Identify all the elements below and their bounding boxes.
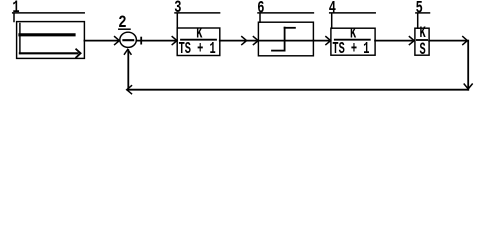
block 4 numerator K — [350, 25, 357, 42]
relay axis line through block — [258, 40, 313, 42]
block 3 numerator K — [196, 25, 203, 42]
tick at wire start after summing junction — [140, 38, 142, 44]
label tick for block 3 — [176, 14, 178, 29]
arrowhead into block 6 — [253, 37, 258, 45]
block 1 icon: y-axis — [19, 24, 21, 54]
svg-text:5: 5 — [416, 0, 423, 18]
block 4 fraction bar — [335, 39, 370, 41]
svg-text:TS + 1: TS + 1 — [332, 41, 369, 59]
block 1 icon: constant level thick bar — [20, 33, 74, 36]
label 6 underline — [258, 12, 313, 14]
relay lower output level — [272, 50, 285, 52]
label 1 underline — [13, 12, 85, 14]
label 3 — [174, 0, 181, 18]
arrowhead pointing left at bottom left corner — [127, 86, 132, 94]
arrowhead into summing junction — [115, 37, 120, 45]
block 5 numerator K — [420, 24, 426, 42]
label 2 underline — [119, 28, 130, 30]
label 1 — [12, 0, 19, 18]
mid-wire arrowhead — [242, 37, 247, 45]
label tick for block 5 — [417, 14, 419, 29]
arrowhead into block 4 — [326, 37, 331, 45]
relay upper output level — [285, 27, 295, 29]
arrowhead pointing down at bottom right corner — [464, 84, 472, 89]
wire block1 to summing junction — [84, 40, 117, 42]
arrowhead into block 5 — [409, 37, 414, 45]
label 2 — [118, 13, 126, 33]
svg-text:S: S — [420, 41, 427, 60]
wire summing junction to block 3 — [137, 40, 176, 42]
feedback left vertical wire — [127, 50, 129, 90]
wire block 3 to block 6 — [220, 40, 256, 42]
label 6 — [257, 0, 264, 18]
label 5 underline — [416, 12, 430, 14]
block 1 icon: x-axis arrowhead — [76, 49, 80, 57]
block 1 (signal source) — [17, 22, 85, 59]
arrowhead at right corner — [463, 37, 468, 45]
wire block 4 to block 5 — [375, 40, 412, 42]
feedback right vertical wire — [467, 41, 469, 90]
block 5 fraction bar — [417, 39, 427, 41]
arrowhead into block 3 — [172, 37, 177, 45]
label tick for block 6 — [259, 14, 261, 23]
block 4 transfer function K/(TS+1) — [331, 28, 375, 55]
block 3 denominator TS + 1 — [179, 41, 216, 59]
block 5 denominator S — [420, 41, 427, 60]
block 3 fraction bar — [181, 39, 216, 41]
summing junction circle — [120, 32, 137, 47]
wire block 5 to right corner — [429, 40, 466, 42]
block 4 denominator TS + 1 — [332, 41, 369, 59]
label 5 — [416, 0, 423, 18]
block 6 relay nonlinearity — [258, 22, 313, 56]
label tick for block 4 — [331, 14, 333, 29]
label 4 underline — [330, 12, 376, 14]
svg-text:TS + 1: TS + 1 — [179, 41, 216, 59]
minus sign inside summing junction — [123, 39, 133, 41]
block 1 icon: x-axis with arrow — [20, 52, 78, 54]
label tick for block 1 — [13, 14, 15, 22]
arrowhead pointing up into summing junction — [124, 49, 131, 54]
relay vertical transition — [284, 28, 286, 51]
feedback bottom wire — [128, 89, 468, 91]
label 4 — [329, 0, 336, 18]
wire block 6 to block 4 — [313, 40, 328, 42]
svg-text:6: 6 — [257, 0, 264, 18]
label 3 underline — [175, 12, 220, 14]
block 5 integrator K/S — [415, 28, 429, 55]
block 3 transfer function K/(TS+1) — [177, 28, 220, 56]
